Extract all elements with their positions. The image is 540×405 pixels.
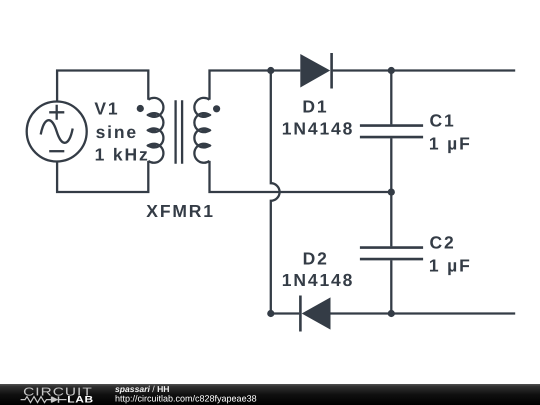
wire node B to right end (391, 69, 515, 71)
primary coil cusp wedges (147, 113, 157, 148)
wire node A down with crossover hop (271, 71, 280, 314)
phase dot primary (137, 105, 144, 112)
wire D2 anode to node D (331, 312, 392, 314)
svg-text:D1: D1 (302, 97, 328, 117)
svg-text:sine: sine (96, 122, 138, 142)
node D junction dot (388, 310, 395, 317)
wire secondary top to node A (210, 71, 271, 100)
phase dot secondary (213, 105, 220, 112)
svg-text:C1: C1 (430, 111, 456, 131)
svg-text:1 µF: 1 µF (429, 134, 472, 154)
svg-text:1 kHz: 1 kHz (95, 144, 150, 164)
diode D2 (300, 296, 330, 332)
svg-text:1N4148: 1N4148 (282, 270, 354, 290)
svg-text:1 µF: 1 µF (429, 256, 472, 276)
capacitor C2 plates (360, 248, 423, 260)
voltage source V1 (27, 102, 87, 162)
node E junction dot (267, 310, 274, 317)
svg-text:1N4148: 1N4148 (282, 118, 354, 138)
transformer XFMR1 secondary coil (194, 98, 209, 163)
svg-text:V1: V1 (94, 98, 119, 118)
wire node D to right end (391, 312, 515, 314)
node A junction dot (267, 67, 274, 74)
svg-text:D2: D2 (303, 248, 329, 268)
capacitor C1 plates (360, 126, 423, 138)
svg-text:C2: C2 (430, 233, 456, 253)
node B junction dot (388, 67, 395, 74)
transformer XFMR1 primary coil (148, 98, 163, 163)
wire node B down to C1 top plate (390, 71, 392, 125)
wire node A to D1 anode (271, 69, 301, 71)
svg-text:LAB: LAB (67, 395, 93, 405)
CircuitLab logo diode triangle (52, 396, 59, 402)
wire V1 top to primary top (57, 71, 148, 102)
CircuitLab logo resistor-diode symbol (21, 396, 67, 402)
wire secondary bottom to node C (210, 161, 392, 192)
wire C2 bottom plate to bottom rail (390, 260, 392, 313)
svg-text:XFMR1: XFMR1 (146, 201, 215, 221)
wire bottom rail left to D2 cathode (271, 312, 299, 314)
secondary coil cusp wedges (201, 113, 211, 148)
diode D1 (300, 53, 331, 89)
node C junction dot (388, 189, 395, 196)
wire V1 bottom to primary bottom (57, 161, 148, 192)
svg-text:spassari / HH: spassari / HH (115, 384, 169, 394)
wire C1 bottom plate to C2 top plate (390, 138, 392, 246)
wire D1 cathode to node B (333, 69, 392, 71)
transformer core (176, 100, 183, 164)
svg-text:http://circuitlab.com/c828fyap: http://circuitlab.com/c828fyapeae38 (115, 394, 257, 404)
